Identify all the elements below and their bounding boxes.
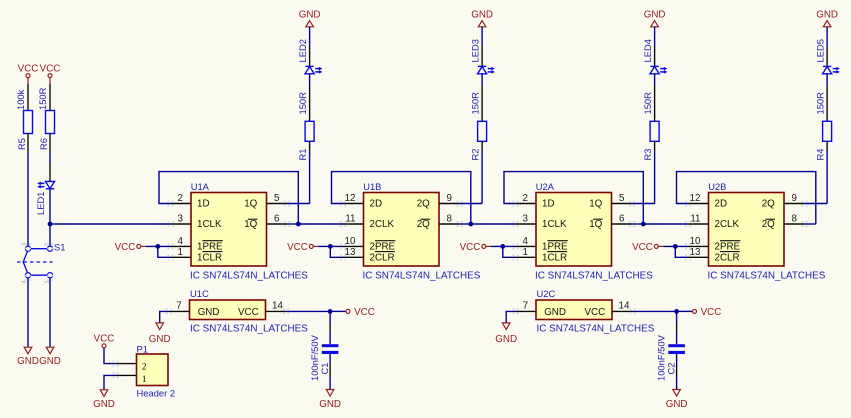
diode LED5 [814,39,839,74]
svg-text:1PRE: 1PRE [542,242,568,253]
wire GND to LED3 [481,27,483,66]
resistor R4 value 150R [814,92,825,115]
wire C2 to GND [676,354,678,390]
svg-text:P1: P1 [137,344,148,355]
power port GND (S1 left) [17,347,39,367]
svg-text:10: 10 [690,236,701,247]
resistor R5 value 100k [15,89,26,110]
power port VCC (U2B PRE/CLR) [632,242,663,253]
svg-text:1: 1 [142,374,147,385]
svg-text:4: 4 [523,236,529,247]
latch U2A IC SN74LS74N_LATCHES [513,181,654,281]
svg-text:2Q: 2Q [762,199,775,210]
wire GND to LED4 [654,27,656,66]
wire input node to U1A pin3 [50,223,171,225]
svg-text:U1A: U1A [191,181,210,192]
pin 4 U1A [168,243,170,245]
svg-text:VCC: VCC [287,242,308,253]
power port GND (S1 right) [39,347,61,367]
wire VCC node to C1 [329,311,331,344]
wire feedback U1A Qbar to D [159,172,298,224]
svg-text:GND: GND [149,334,171,345]
svg-text:R1: R1 [297,149,308,161]
svg-text:LED2: LED2 [297,39,308,62]
wire U1C pin7 to GND [160,311,169,323]
svg-text:3: 3 [523,214,529,225]
svg-text:4: 4 [178,236,184,247]
svg-text:IC SN74LS74N_LATCHES: IC SN74LS74N_LATCHES [708,270,826,281]
diode LED3 [469,39,494,74]
junction node U1A Qbar [296,222,301,227]
svg-text:150R: 150R [297,92,308,115]
svg-text:U1C: U1C [190,288,209,299]
pin 8 U2B [802,221,804,223]
pin 12 U1B [340,201,342,203]
svg-text:9: 9 [447,193,452,204]
junction VCC branch U2B [673,244,678,249]
svg-text:LED1: LED1 [35,192,46,215]
wire U1A Qbar to next stage CLK [298,223,343,225]
svg-text:GND: GND [495,334,517,345]
svg-text:8: 8 [447,214,453,225]
pin 7 U1C [166,308,168,310]
pin 9 U1B [457,201,459,203]
svg-text:GND: GND [93,399,115,410]
power port VCC (U2A PRE/CLR) [460,242,491,253]
svg-text:GND: GND [471,9,493,20]
svg-text:1CLR: 1CLR [197,253,222,264]
svg-text:IC SN74LS74N_LATCHES: IC SN74LS74N_LATCHES [190,270,308,281]
pin 5 U2A [629,201,631,203]
svg-text:11: 11 [690,214,700,225]
wire VCC node to C2 [676,311,678,344]
power port GND (P1) [93,390,115,410]
power port GND (C2) [666,390,688,411]
capacitor C2 value 100nF/50V [655,334,685,381]
svg-text:GND: GND [198,307,220,318]
svg-text:VCC: VCC [585,307,606,318]
pin 4 U2A [513,243,515,245]
svg-text:12: 12 [345,193,356,204]
pin 11 U2B [685,221,687,223]
wire R6 to LED1 [49,134,51,182]
svg-text:1D: 1D [197,199,210,210]
svg-text:2CLR: 2CLR [715,253,740,264]
junction VCC node U2C [674,309,679,314]
svg-text:14: 14 [619,301,630,312]
svg-text:GND: GND [816,9,838,20]
svg-text:14: 14 [272,301,283,312]
pin 1 U1A [168,254,170,256]
svg-text:IC SN74LS74N_LATCHES: IC SN74LS74N_LATCHES [363,270,481,281]
power port GND (top of LED2 chain) [299,9,321,27]
junction VCC branch U1B [328,244,333,249]
resistor R2 value 150R [469,92,480,115]
svg-text:2D: 2D [715,199,728,210]
resistor R6 value 150R [37,87,48,110]
pin 2 U1A [168,201,170,203]
svg-text:U2A: U2A [536,181,555,192]
svg-text:VCC: VCC [460,242,481,253]
wire VCC to U2B PRE/CLR [663,246,688,257]
svg-text:GND: GND [39,356,61,367]
wire P1 pin1 to GND [104,372,137,389]
svg-text:2CLR: 2CLR [370,253,395,264]
svg-text:1Q: 1Q [244,219,257,230]
latch power section U1C [166,288,308,335]
svg-text:IC SN74LS74N_LATCHES: IC SN74LS74N_LATCHES [190,324,308,335]
power port VCC (P1) [94,334,115,348]
svg-text:1D: 1D [542,199,555,210]
svg-text:U2C: U2C [537,288,556,299]
wire R2 to U1B Q output (pin 9) [460,141,483,203]
resistor R2 [469,121,486,160]
resistor R3 [642,121,659,160]
svg-text:VCC: VCC [40,63,61,74]
wire U1A Qbar output (pin 6) [287,223,298,225]
svg-text:11: 11 [345,214,355,225]
svg-text:VCC: VCC [18,63,39,74]
svg-text:8: 8 [792,214,798,225]
svg-text:R3: R3 [642,149,653,161]
svg-text:7: 7 [523,301,528,312]
svg-text:LED4: LED4 [642,39,653,62]
wire VCC to P1 pin2 [104,348,137,367]
wire U1B Qbar to next stage CLK [471,223,516,225]
svg-text:3: 3 [178,214,184,225]
wire U2C pin14 to VCC [633,310,693,312]
wire U2B Qbar output (pin 8) [805,223,816,225]
svg-text:13: 13 [345,247,356,258]
wire R4 to U2B Q output (pin 9) [805,141,828,203]
svg-text:IC SN74LS74N_LATCHES: IC SN74LS74N_LATCHES [535,270,653,281]
svg-text:VCC: VCC [701,307,722,318]
wire LED3 to R2 [481,74,483,122]
svg-text:U2B: U2B [708,181,726,192]
svg-text:5: 5 [274,193,280,204]
pin 2 U2A [513,201,515,203]
resistor R4 [814,121,831,160]
pin 8 U1B [457,221,459,223]
svg-text:2CLK: 2CLK [715,219,740,230]
wire R3 to U2A Q output (pin 5) [632,141,655,203]
wire GND to LED2 [309,27,311,66]
wire S1 pin4 to GND [27,278,29,347]
svg-text:S1: S1 [54,242,65,253]
wire LED5 to R4 [826,74,828,122]
pin 6 U2A [629,221,631,223]
pin 13 U2B [685,254,687,256]
pin 10 U2B [685,243,687,245]
resistor R1 [297,121,314,160]
junction at LED1 output node [48,222,53,227]
svg-text:C1: C1 [319,363,330,375]
pin 13 U1B [340,254,342,256]
svg-text:150R: 150R [37,87,48,110]
power port GND (U1C) [149,323,171,345]
wire U2A Qbar output (pin 6) [632,223,643,225]
svg-text:2: 2 [178,193,183,204]
power port GND (U2C) [495,323,517,345]
svg-text:IC SN74LS74N_LATCHES: IC SN74LS74N_LATCHES [537,324,655,335]
junction node U2A Qbar [641,222,646,227]
power port GND (top of LED3 chain) [471,9,493,27]
power port VCC (x=28) [18,63,39,77]
power port GND (top of LED5 chain) [816,9,838,27]
svg-text:2CLK: 2CLK [370,219,395,230]
diode LED4 [642,39,667,74]
resistor R1 value 150R [297,92,308,115]
svg-text:13: 13 [690,247,701,258]
wire feedback U2A Qbar to D [504,172,643,224]
power port VCC (x=50) [40,63,61,77]
svg-text:1Q: 1Q [589,219,602,230]
svg-text:4: 4 [22,280,28,283]
junction VCC node U1C [328,309,333,314]
svg-text:R4: R4 [814,149,825,161]
diode LED2 [297,39,322,74]
svg-text:1Q: 1Q [244,199,257,210]
wire R1 to U1A Q output (pin 5) [287,141,310,203]
latch power section U2C [513,288,655,335]
resistor R3 value 150R [642,92,653,115]
svg-text:2: 2 [523,193,528,204]
wire U1C pin14 to VCC [286,310,346,312]
svg-text:2PRE: 2PRE [370,242,396,253]
svg-text:Header 2: Header 2 [137,388,176,399]
pin 10 U1B [340,243,342,245]
pin 14 U2C [630,308,632,310]
wire GND to LED5 [826,27,828,66]
svg-text:R5: R5 [16,138,27,150]
svg-text:6: 6 [619,214,625,225]
svg-text:1: 1 [523,247,528,258]
svg-text:VCC: VCC [94,334,115,345]
svg-text:GND: GND [666,399,688,410]
svg-text:150R: 150R [642,92,653,115]
wire feedback U1B Qbar to D [332,172,471,224]
svg-text:2PRE: 2PRE [715,242,741,253]
svg-text:GND: GND [319,399,341,410]
pin 5 U1A [284,201,286,203]
wire feedback U2B Qbar to D [677,172,816,224]
resistor R5 [16,111,33,151]
junction VCC branch U1A [155,244,160,249]
svg-text:1PRE: 1PRE [197,242,223,253]
wire R5 to S1 pin3 [27,134,29,247]
svg-text:2D: 2D [370,199,383,210]
svg-text:2Q: 2Q [417,219,430,230]
pin 3 U1A [168,221,170,223]
svg-text:150R: 150R [469,92,480,115]
power port VCC (U1A PRE/CLR) [115,242,146,253]
svg-text:7: 7 [176,301,181,312]
svg-text:1: 1 [178,247,183,258]
power port VCC (U2C) [693,307,722,318]
svg-text:GND: GND [17,356,39,367]
power port VCC (U1C) [346,307,375,318]
pin 3 U2A [513,221,515,223]
svg-text:1CLK: 1CLK [542,219,567,230]
svg-text:9: 9 [792,193,797,204]
svg-text:150R: 150R [814,92,825,115]
latch U2B IC SN74LS74N_LATCHES [685,181,826,281]
wire LED4 to R3 [654,74,656,122]
wire VCC to U2A PRE/CLR [491,246,516,257]
svg-text:5: 5 [619,193,625,204]
svg-text:1CLR: 1CLR [542,253,567,264]
junction node U1B Qbar [468,222,473,227]
wire LED1 to S1 pin2 / node to U1A CLK [49,189,51,246]
svg-text:GND: GND [644,9,666,20]
pin 14 U1C [283,308,285,310]
power port GND (C1) [319,390,341,411]
svg-text:6: 6 [274,214,280,225]
switch S1 [17,242,65,284]
power port GND (top of LED4 chain) [644,9,666,27]
power port VCC (U1B PRE/CLR) [287,242,318,253]
pin 6 U1A [284,221,286,223]
pin 11 U1B [340,221,342,223]
svg-text:2: 2 [142,362,147,373]
svg-text:LED3: LED3 [469,39,480,62]
svg-text:12: 12 [690,193,701,204]
svg-text:R6: R6 [38,138,49,150]
wire U2C pin7 to GND [506,311,515,323]
pin 9 U2B [802,201,804,203]
latch U1B IC SN74LS74N_LATCHES [340,181,481,281]
wire VCC to R6 [49,78,51,111]
svg-text:GND: GND [544,307,566,318]
svg-text:1CLK: 1CLK [197,219,222,230]
wire U1B Qbar output (pin 8) [460,223,471,225]
wire VCC to U1B PRE/CLR [318,246,343,257]
pin 7 U2C [513,308,515,310]
wire C1 to GND [329,354,331,390]
svg-text:2Q: 2Q [417,199,430,210]
connector P1 Header 2 [137,344,176,399]
wire S1 pin1 to GND [49,278,51,347]
pin 1 U2A [513,254,515,256]
svg-text:GND: GND [299,9,321,20]
wire VCC to R5 [27,78,29,111]
wire VCC to U1A PRE/CLR [146,246,171,257]
svg-text:1Q: 1Q [589,199,602,210]
svg-text:100k: 100k [15,89,26,110]
latch U1A IC SN74LS74N_LATCHES [168,181,309,281]
svg-text:VCC: VCC [354,307,375,318]
resistor R6 [38,111,55,151]
svg-text:LED5: LED5 [814,39,825,62]
svg-text:VCC: VCC [115,242,136,253]
capacitor C1 value 100nF/50V [309,334,339,381]
svg-text:2Q: 2Q [762,219,775,230]
wire LED2 to R1 [309,74,311,122]
svg-text:VCC: VCC [238,307,259,318]
diode LED1 [35,181,55,215]
junction VCC branch U2A [500,244,505,249]
svg-text:VCC: VCC [632,242,653,253]
svg-text:R2: R2 [469,149,480,161]
svg-text:C2: C2 [665,363,676,375]
pin 12 U2B [685,201,687,203]
wire U2A Qbar to next stage CLK [643,223,688,225]
svg-text:U1B: U1B [363,181,381,192]
svg-text:10: 10 [345,236,356,247]
